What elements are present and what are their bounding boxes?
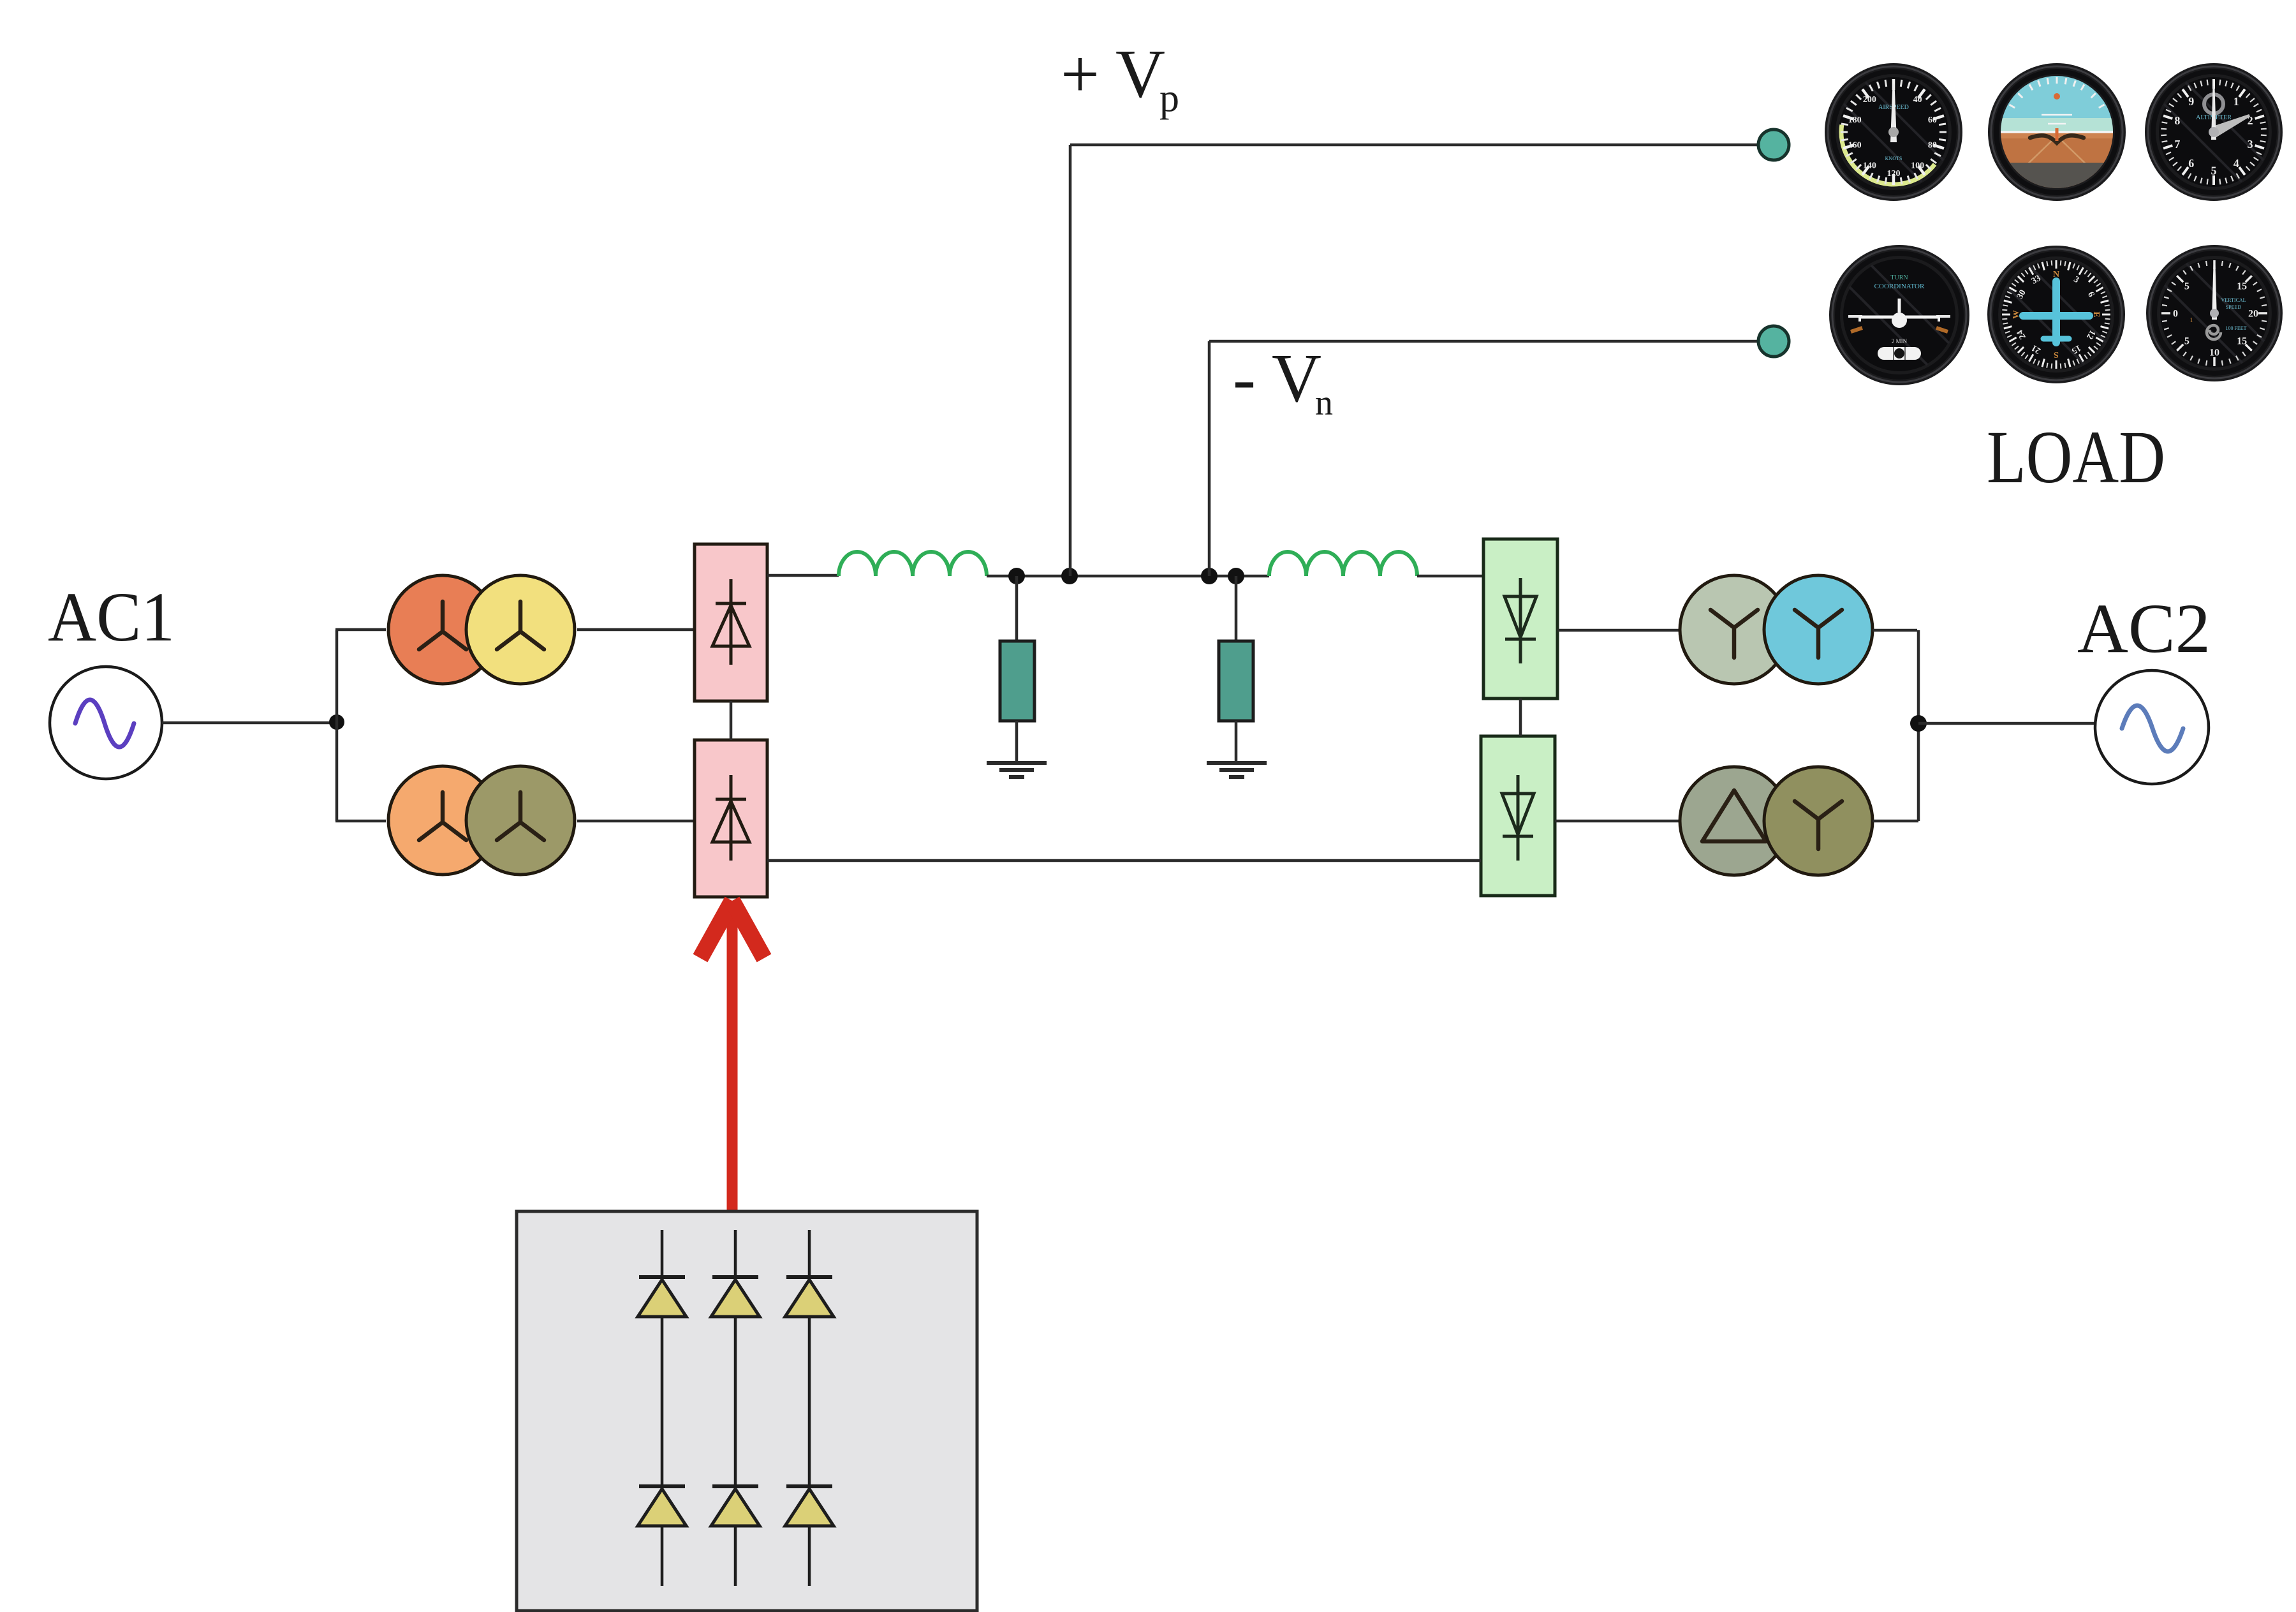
svg-text:40: 40 bbox=[1913, 95, 1922, 105]
svg-text:AC1: AC1 bbox=[48, 578, 175, 656]
wire -Vn riser bbox=[1208, 341, 1211, 576]
wire -Vn feed to load bbox=[1209, 340, 1758, 343]
svg-text:180: 180 bbox=[1848, 115, 1862, 125]
diode D1 (top row) bbox=[638, 1277, 686, 1317]
wire AC1 to node J1 bbox=[162, 721, 337, 725]
svg-text:15: 15 bbox=[2237, 281, 2247, 292]
gauge: airspeed indicator (load instrument 1) bbox=[1825, 63, 1962, 201]
AC source AC2 bbox=[2095, 670, 2209, 784]
wire +Vp feed to load bbox=[1070, 144, 1758, 147]
label +Vp bbox=[1061, 36, 1179, 120]
transformer T2 (Y-Y) secondary winding bbox=[466, 766, 575, 875]
transformer T2 (Y-Y) primary winding bbox=[388, 766, 497, 875]
svg-text:VERTICAL: VERTICAL bbox=[2221, 297, 2246, 303]
diode D3 (top row) bbox=[785, 1277, 834, 1317]
svg-text:+ V: + V bbox=[1061, 36, 1165, 112]
diode module box (fault detail) bbox=[517, 1211, 977, 1611]
svg-text:1: 1 bbox=[2233, 95, 2239, 108]
label AC1 bbox=[48, 578, 175, 656]
svg-text:200: 200 bbox=[1863, 95, 1876, 105]
svg-text:TURN: TURN bbox=[1890, 274, 1908, 281]
terminal node +Vp (load tap) bbox=[1758, 129, 1789, 160]
svg-text:1: 1 bbox=[2190, 317, 2193, 324]
gauge: vertical speed indicator (load instrument 6) bbox=[2146, 245, 2283, 381]
svg-text:p: p bbox=[1159, 77, 1179, 120]
svg-text:100 FEET: 100 FEET bbox=[2225, 325, 2246, 331]
svg-text:10: 10 bbox=[2209, 348, 2219, 359]
wire J1 to transformer T2 bbox=[335, 820, 386, 823]
svg-text:80: 80 bbox=[1928, 141, 1937, 151]
diode leg 1 lead wire bbox=[661, 1230, 664, 1586]
svg-text:SPEED: SPEED bbox=[2226, 304, 2242, 310]
diode D2 (top row) bbox=[711, 1277, 760, 1317]
label -Vn bbox=[1233, 341, 1333, 423]
inductor L1 (positive dc filter) bbox=[839, 552, 987, 576]
transformer T3 (Y-Y) secondary winding bbox=[1764, 575, 1873, 684]
svg-text:60: 60 bbox=[1928, 115, 1937, 125]
transformer T4 (Delta-Y) primary winding bbox=[1680, 767, 1788, 875]
svg-text:4: 4 bbox=[2233, 157, 2239, 170]
transformer T1 (Y-Y) secondary winding bbox=[466, 575, 575, 684]
svg-text:9: 9 bbox=[2188, 95, 2194, 108]
node E bbox=[1910, 715, 1927, 732]
node C (-Vn tap) bbox=[1201, 568, 1218, 584]
wire T1 to rectifier box P1 bbox=[577, 628, 695, 632]
svg-text:8: 8 bbox=[2174, 114, 2180, 127]
svg-text:n: n bbox=[1315, 383, 1333, 423]
gauge: heading indicator (load instrument 5) bbox=[1987, 246, 2125, 383]
label AC2 bbox=[2077, 589, 2211, 667]
diode D5 (bottom row) bbox=[711, 1486, 760, 1526]
diode leg 3 lead wire bbox=[808, 1230, 811, 1586]
wire R2 to ground bbox=[1235, 721, 1238, 763]
svg-text:160: 160 bbox=[1848, 141, 1862, 151]
wire negative dc return bus bbox=[767, 859, 1481, 862]
ground (R2) bbox=[1207, 763, 1267, 777]
wire G1 to transformer T3 bbox=[1557, 629, 1681, 632]
label LOAD bbox=[1987, 415, 2165, 499]
diode D6 (bottom row) bbox=[785, 1486, 834, 1526]
transformer T3 (Y-Y) primary winding bbox=[1680, 575, 1788, 684]
svg-text:5: 5 bbox=[2211, 164, 2217, 177]
svg-text:100: 100 bbox=[1911, 161, 1924, 171]
svg-text:- V: - V bbox=[1233, 341, 1321, 417]
wire T4 to node E bbox=[1873, 820, 1918, 823]
node B (+Vp tap) bbox=[1061, 568, 1078, 584]
wire node E to AC2 bbox=[1918, 722, 2095, 725]
red fault arrow into P2 bbox=[700, 901, 764, 1211]
wire G2 to transformer T4 bbox=[1555, 820, 1681, 823]
svg-text:15: 15 bbox=[2237, 336, 2247, 347]
rectifier P2 (negative-side converter) bbox=[695, 740, 767, 897]
ground (R1) bbox=[987, 763, 1047, 777]
wire AC2 vertical branch bbox=[1917, 630, 1920, 821]
svg-text:120: 120 bbox=[1887, 169, 1901, 179]
svg-text:AC2: AC2 bbox=[2077, 589, 2211, 667]
gauge: altimeter (load instrument 3) bbox=[2145, 63, 2283, 201]
wire +Vp riser bbox=[1069, 145, 1072, 576]
inverter G1 (thyristor box, top right) bbox=[1483, 539, 1557, 699]
node J1 bbox=[329, 714, 344, 730]
transformer T4 (Delta-Y) secondary winding bbox=[1764, 767, 1873, 875]
svg-text:7: 7 bbox=[2174, 138, 2180, 151]
wire L2 to inverter box G1 bbox=[1417, 575, 1484, 578]
svg-text:0: 0 bbox=[2173, 309, 2178, 320]
svg-text:5: 5 bbox=[2184, 281, 2189, 292]
svg-text:KNOTS: KNOTS bbox=[1885, 156, 1902, 161]
resistor R1 bbox=[1000, 641, 1034, 721]
wire P1 output to inductor L1 bbox=[767, 574, 839, 577]
wire R1 to ground bbox=[1015, 721, 1019, 763]
gauge: turn coordinator (load instrument 4) bbox=[1829, 245, 1969, 385]
svg-text:20: 20 bbox=[2248, 309, 2258, 320]
diode D4 (bottom row) bbox=[638, 1486, 686, 1526]
transformer T1 (Y-Y) primary winding bbox=[388, 575, 497, 684]
wire node A to resistor R1 bbox=[1015, 576, 1019, 642]
svg-text:COORDINATOR: COORDINATOR bbox=[1874, 283, 1925, 290]
wire G1-G2 interconnect bbox=[1519, 699, 1522, 736]
svg-text:5: 5 bbox=[2184, 336, 2189, 347]
terminal node -Vn (load tap) bbox=[1758, 326, 1789, 357]
wire node D to resistor R2 bbox=[1235, 576, 1238, 642]
svg-text:6: 6 bbox=[2188, 157, 2194, 170]
wire T2 to rectifier box P2 bbox=[577, 820, 695, 823]
svg-text:LOAD: LOAD bbox=[1987, 415, 2165, 499]
wire positive dc bus bbox=[987, 575, 1269, 578]
wire P1-P2 interconnect bbox=[730, 701, 733, 740]
svg-text:2 MIN: 2 MIN bbox=[1892, 338, 1908, 344]
svg-text:S: S bbox=[2054, 350, 2059, 359]
node A (R1 tap) bbox=[1008, 568, 1025, 584]
resistor R2 bbox=[1219, 641, 1253, 721]
diode leg 2 lead wire bbox=[734, 1230, 737, 1586]
node D (R2 tap) bbox=[1228, 568, 1244, 584]
wire T3 to node E bbox=[1873, 629, 1917, 632]
AC source AC1 bbox=[50, 667, 162, 779]
svg-text:140: 140 bbox=[1863, 161, 1876, 171]
rectifier P1 (positive-side converter) bbox=[695, 544, 767, 701]
wire J1 to transformer T1 bbox=[335, 628, 386, 632]
svg-text:3: 3 bbox=[2248, 138, 2253, 151]
inductor L2 (right dc filter) bbox=[1269, 552, 1417, 576]
gauge: attitude indicator (load instrument 2) bbox=[1988, 63, 2126, 201]
wire J1 vertical branch bbox=[335, 630, 339, 821]
inverter G2 (thyristor box, bottom right) bbox=[1481, 736, 1555, 896]
